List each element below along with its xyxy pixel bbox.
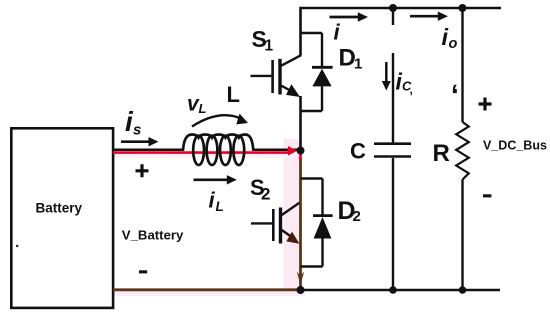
- IGBT S2 emitter arrowhead: [286, 232, 299, 244]
- diode D1 upper lead: [321, 33, 323, 67]
- arrow i (top): [330, 16, 360, 19]
- minus sign output: [483, 194, 491, 197]
- inductor loop 2: [207, 136, 218, 165]
- IGBT S1 emitter arrowhead: [286, 84, 300, 97]
- diode D1 triangle: [312, 69, 331, 87]
- diode D2 triangle: [314, 217, 332, 239]
- IGBT S2 emitter diagonal: [281, 230, 291, 237]
- capacitor lower lead: [392, 158, 394, 290]
- diode D1 lower lead: [321, 86, 323, 111]
- diode D2 bottom horizontal: [301, 265, 323, 267]
- resistor R lower lead: [461, 180, 463, 291]
- diode D2 cathode bar: [313, 214, 333, 217]
- battery box: [11, 128, 113, 308]
- highlight band along S2 rail: [284, 139, 301, 292]
- brown arrowhead above bottom node: [297, 272, 304, 285]
- IGBT S2 collector diagonal: [281, 202, 301, 216]
- top rail: [301, 8, 502, 56]
- red arrowhead at node: [288, 146, 297, 156]
- svg-text:V_DC_Bus: V_DC_Bus: [483, 139, 547, 153]
- IGBT S1 body bar: [278, 59, 281, 95]
- capacitor top plate: [374, 142, 411, 145]
- svg-text:2: 2: [353, 208, 361, 225]
- wire inductor to node: [253, 148, 301, 151]
- diode D1 cathode bar: [312, 66, 333, 69]
- IGBT S2 gate lead: [251, 222, 272, 224]
- arrow i_C: [385, 62, 388, 83]
- plus sign battery: [136, 164, 149, 177]
- svg-text:2: 2: [261, 185, 270, 204]
- svg-text:1: 1: [354, 56, 362, 73]
- plus sign output: [479, 98, 492, 111]
- S2 rail (brown): [299, 157, 302, 287]
- inductor loop 3: [220, 136, 231, 165]
- highlight band under bottom battery wire: [113, 291, 305, 296]
- svg-text:Battery: Battery: [36, 201, 83, 216]
- resistor R zigzag: [456, 122, 469, 180]
- inductor loop 4: [233, 136, 244, 165]
- highlight band under top battery wire: [113, 154, 293, 158]
- diode D1 top horizontal: [301, 32, 323, 34]
- IGBT S1 gate lead: [251, 75, 272, 77]
- node bottom-R junction: [459, 286, 467, 294]
- node top-cap junction: [389, 4, 397, 12]
- inductor L coil humps: [183, 135, 253, 151]
- wire battery top (black): [113, 148, 184, 151]
- svg-text:i: i: [334, 20, 341, 45]
- capacitor upper lead segment 2: [392, 53, 394, 143]
- svg-text:,: ,: [410, 83, 413, 97]
- red stub below node: [299, 152, 302, 161]
- svg-text:i: i: [442, 24, 449, 50]
- svg-text:L: L: [199, 101, 207, 116]
- svg-text:i: i: [209, 188, 216, 213]
- node bottom-S2 junction: [297, 286, 305, 294]
- svg-text:L: L: [227, 82, 240, 107]
- IGBT S1 emitter diagonal: [281, 86, 292, 92]
- resistor R upper lead: [461, 8, 463, 122]
- capacitor upper lead segment 1: [392, 8, 394, 25]
- arrow i_s: [121, 140, 150, 143]
- stray period mark: [16, 245, 18, 247]
- svg-text:s: s: [133, 121, 141, 138]
- diode D2 upper lead: [321, 179, 323, 216]
- svg-text:R: R: [433, 140, 450, 167]
- diode D2 lower lead: [321, 239, 323, 267]
- svg-text:1: 1: [265, 38, 274, 55]
- node bottom-cap junction: [389, 286, 397, 294]
- arrow i_o: [410, 15, 439, 18]
- svg-text:o: o: [449, 36, 458, 52]
- node mid junction: [297, 147, 305, 155]
- bottom rail (black): [301, 289, 501, 292]
- diode D1 bottom horizontal: [301, 110, 323, 112]
- wire S1 emitter to mid node: [299, 96, 302, 150]
- arrow i_L: [194, 179, 229, 182]
- capacitor bottom plate: [374, 155, 411, 158]
- node top-R junction: [459, 4, 467, 12]
- IGBT S1 gate bar: [271, 60, 274, 93]
- inductor loop 1: [193, 136, 204, 165]
- diode D2 top horizontal: [301, 177, 323, 179]
- bottom wire battery (brown): [113, 288, 300, 291]
- svg-text:C: C: [350, 138, 366, 163]
- red current path top: [113, 151, 289, 154]
- svg-text:L: L: [216, 199, 224, 214]
- svg-text:V_Battery: V_Battery: [122, 228, 184, 243]
- IGBT S2 body bar: [279, 208, 282, 244]
- curved arrow vL: [192, 115, 241, 126]
- svg-text:,: ,: [451, 83, 459, 114]
- IGBT S2 gate bar: [272, 209, 275, 241]
- IGBT S1 collector diagonal: [281, 55, 301, 66]
- minus sign battery: [139, 270, 147, 273]
